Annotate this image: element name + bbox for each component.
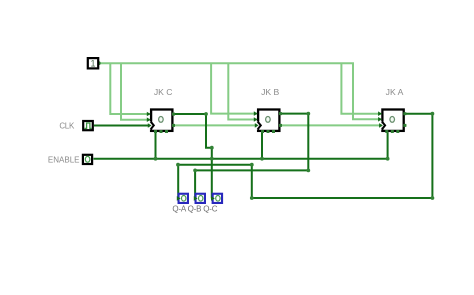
svg-text:CLK: CLK <box>59 121 75 130</box>
svg-text:1: 1 <box>90 59 95 69</box>
svg-text:Q-A Q-B Q-C: Q-A Q-B Q-C <box>172 204 217 213</box>
svg-text:JK C: JK C <box>154 87 173 97</box>
svg-text:JK A: JK A <box>386 87 404 97</box>
svg-text:JK B: JK B <box>261 87 279 97</box>
svg-text:ENABLE: ENABLE <box>48 155 80 164</box>
